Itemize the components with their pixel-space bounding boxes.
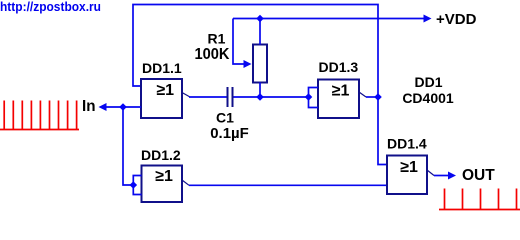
wire DD1.2 output to DD1.4 lower input — [189, 184, 387, 186]
arrowhead R1 wiper — [244, 60, 252, 68]
svg-text:R1: R1 — [208, 31, 226, 47]
wire In to DD1.1 lower input — [105, 106, 141, 108]
gate DD1.4 box — [387, 156, 427, 195]
wire R1 bottom lead — [259, 83, 261, 98]
svg-text:In: In — [82, 98, 96, 115]
gate DD1.4 output inversion hook — [427, 170, 434, 176]
wire DD1.4 output — [434, 175, 449, 177]
svg-text:DD1.4: DD1.4 — [387, 136, 427, 152]
svg-text:≥1: ≥1 — [155, 168, 173, 185]
node DD1.2 input junction — [130, 181, 138, 189]
node In junction — [119, 103, 127, 111]
wire +VDD rail from R1 top node — [233, 18, 426, 20]
gate DD1.3 input tie bar — [309, 88, 319, 108]
svg-text:OUT: OUT — [462, 167, 495, 184]
svg-text:0.1µF: 0.1µF — [210, 126, 249, 142]
wire R1 wiper branch — [233, 19, 245, 65]
svg-text:C1: C1 — [216, 110, 234, 126]
node DD1.3 input junction — [305, 93, 313, 101]
wire In node down to DD1.2 inputs — [123, 107, 133, 185]
arrowhead OUT — [448, 172, 456, 180]
arrowhead In — [99, 103, 107, 111]
svg-text:DD1: DD1 — [414, 74, 442, 90]
wire feedback loop DD1.3 output to DD1.1 input (top rail) — [133, 5, 387, 165]
resistor R1 body — [253, 45, 267, 83]
wire DD1.3 output to feedback node — [366, 96, 378, 98]
svg-text:CD4001: CD4001 — [402, 90, 454, 106]
gate DD1.2 box — [142, 166, 183, 203]
svg-text:≥1: ≥1 — [400, 159, 418, 176]
svg-text:≥1: ≥1 — [332, 83, 350, 100]
node DD1.3 output junction — [374, 93, 382, 101]
svg-text:≥1: ≥1 — [156, 82, 174, 99]
svg-text:http://zpostbox.ru: http://zpostbox.ru — [0, 0, 101, 14]
gate DD1.1 box — [141, 79, 182, 118]
svg-text:DD1.2: DD1.2 — [141, 147, 181, 163]
gate DD1.3 output inversion hook — [359, 92, 366, 97]
svg-text:DD1.1: DD1.1 — [142, 60, 182, 76]
node R1 top — [256, 15, 264, 23]
input waveform comb (red) — [0, 101, 79, 130]
gate DD1.1 output inversion hook — [182, 93, 190, 98]
svg-text:+VDD: +VDD — [436, 11, 477, 28]
output waveform comb (red) — [439, 189, 520, 210]
arrowhead +VDD — [424, 15, 432, 23]
gate DD1.2 output inversion hook — [182, 180, 189, 185]
wire R1 top lead — [259, 19, 261, 45]
wire DD1.1 output to C1 — [189, 96, 227, 98]
wire C1 to DD1.3 inputs — [234, 96, 309, 98]
svg-text:100K: 100K — [195, 46, 230, 63]
capacitor C1 plates — [227, 87, 229, 107]
node R1 bottom — [256, 93, 264, 101]
gate DD1.2 input tie bar — [133, 176, 141, 195]
gate DD1.3 box — [318, 80, 359, 119]
svg-text:DD1.3: DD1.3 — [319, 59, 359, 75]
